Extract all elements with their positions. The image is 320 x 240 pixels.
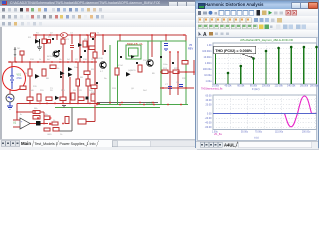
- svg-text:Power Supplies_1: Power Supplies_1: [60, 142, 89, 146]
- bottom plot hgrid: [213, 100, 317, 128]
- wire v6: [79, 35, 81, 62]
- svg-text:100.00u: 100.00u: [203, 68, 212, 71]
- svg-text:R41: R41: [61, 90, 66, 92]
- caption buttons: [291, 2, 301, 9]
- wire chain right: [86, 121, 95, 123]
- current source IS1: [14, 47, 16, 57]
- svg-text:2.5m: 2.5m: [17, 78, 22, 80]
- svg-text:R5: R5: [24, 73, 28, 75]
- red plus mark1: [49, 117, 51, 119]
- svg-text:200.00u: 200.00u: [302, 131, 311, 133]
- junction dots mid rail: [9, 61, 93, 63]
- svg-text:1k: 1k: [60, 134, 63, 136]
- svg-text:20.00: 20.00: [206, 104, 213, 107]
- svg-text:C2: C2: [75, 59, 79, 61]
- resistor box R29: [182, 61, 188, 65]
- green subcircuit mid box: [126, 45, 141, 59]
- resistor box R25: [173, 70, 179, 74]
- wire v20: [193, 60, 195, 75]
- ground G1: [37, 47, 42, 50]
- svg-text:180.00k: 180.00k: [310, 86, 318, 88]
- wire v13: [169, 52, 171, 95]
- sine trace magenta: [285, 96, 317, 127]
- top plot y labels: [202, 44, 212, 83]
- capacitor C1: [70, 46, 74, 48]
- transistor Q5 mark: [78, 43, 82, 47]
- wire opamp in+: [13, 119, 20, 121]
- svg-text:-20.00: -20.00: [205, 117, 212, 120]
- toolbar rows: [0, 6, 197, 14]
- svg-text:220: 220: [33, 86, 37, 88]
- svg-text:70.00u: 70.00u: [255, 131, 263, 133]
- resistor box R31: [65, 117, 69, 124]
- bottom plot y labels: [205, 94, 212, 129]
- top plot vgrid: [228, 43, 304, 84]
- svg-text:C7: C7: [165, 84, 169, 86]
- svg-text:R40: R40: [30, 90, 35, 92]
- harmonic stems: [216, 47, 317, 84]
- svg-text:50.00u: 50.00u: [241, 131, 249, 133]
- diode D8: [126, 72, 131, 77]
- junction dots right zone: [162, 51, 195, 89]
- wire v16: [21, 55, 23, 62]
- svg-text:C8: C8: [176, 82, 180, 84]
- THD arrowhead: [251, 56, 254, 58]
- wire v diode drop: [35, 35, 37, 39]
- svg-text:4k7: 4k7: [47, 59, 51, 61]
- resistor box R5: [83, 41, 87, 47]
- junction dots top rail: [35, 34, 185, 36]
- svg-text:Re: Re: [104, 78, 108, 80]
- svg-text:D9: D9: [50, 90, 54, 92]
- green subcircuit outer box: [118, 41, 187, 105]
- left window title bar: [0, 0, 197, 6]
- svg-text:BRR-KB_7A: BRR-KB_7A: [127, 42, 143, 46]
- wire v5a: [71, 35, 73, 44]
- resistor box R19: [71, 93, 75, 100]
- transistor Q1: [100, 62, 106, 68]
- svg-text:Info: Info: [90, 142, 96, 146]
- resistor box R2: [42, 39, 47, 44]
- svg-text:140.00k: 140.00k: [287, 86, 296, 88]
- app icon: [2, 1, 7, 5]
- svg-text:Rfb: Rfb: [34, 108, 38, 110]
- resistor box R16: [37, 94, 41, 101]
- source VG1: [10, 68, 14, 89]
- wire v19 long: [77, 62, 79, 104]
- svg-text:100.00m: 100.00m: [202, 50, 211, 53]
- resistor box R20: [78, 97, 84, 101]
- svg-text:4k7: 4k7: [48, 37, 52, 39]
- component box X3: [78, 119, 86, 124]
- black symbol specks: [52, 38, 174, 84]
- resistor box R8: [28, 69, 32, 76]
- svg-text:T1: T1: [97, 33, 100, 35]
- wire v14: [177, 52, 179, 95]
- resistor box R18: [60, 97, 66, 101]
- diode D5: [68, 73, 72, 77]
- wire IS1 stub: [14, 57, 16, 62]
- capacitor C4: [179, 85, 183, 87]
- wire right cross2: [160, 87, 194, 89]
- svg-text:R18: R18: [83, 59, 88, 61]
- wire v11: [151, 35, 153, 57]
- junction dots bottom bus dark: [109, 102, 154, 104]
- THD callout arrow: [241, 54, 253, 58]
- wire VS1 top: [9, 89, 11, 94]
- svg-text:R8: R8: [80, 77, 84, 79]
- svg-text:0.7: 0.7: [100, 71, 104, 73]
- svg-text:60.00k: 60.00k: [237, 86, 245, 88]
- wire opamp in-: [13, 126, 20, 128]
- resistor box R9: [42, 69, 46, 76]
- svg-text:THD(harmonics)_fla: THD(harmonics)_fla: [201, 88, 223, 91]
- bottom plot vgrid: [230, 95, 315, 130]
- wire v3: [56, 35, 58, 40]
- left toolbar row1 icons: [2, 8, 102, 12]
- top plot x labels: [212, 86, 319, 88]
- ground G4 blue: [164, 49, 168, 50]
- junction dots green bus: [96, 104, 182, 106]
- svg-text:D5: D5: [73, 90, 77, 92]
- schematic canvas: [0, 27, 199, 139]
- title path text: [10, 0, 160, 6]
- generator VS1 circle: [6, 94, 14, 102]
- wire bottom bus dark: [97, 102, 158, 104]
- caption buttons: [168, 1, 178, 7]
- svg-text:Test_Models 1: Test_Models 1: [35, 142, 58, 146]
- svg-text:1k: 1k: [39, 59, 42, 61]
- svg-text:-40.00: -40.00: [205, 122, 212, 125]
- svg-text:T3: T3: [50, 88, 53, 90]
- svg-text:C1: C1: [66, 39, 70, 41]
- svg-text:Q6: Q6: [131, 88, 135, 90]
- right toolbar row2 icons: [198, 18, 282, 23]
- wire right cross1: [160, 71, 194, 73]
- resistor box R24: [162, 70, 168, 74]
- svg-text:REV: REV: [188, 48, 193, 51]
- wire bottom bus red: [17, 103, 100, 105]
- generator VS1 sine: [8, 97, 12, 99]
- green subcircuit inner box: [129, 48, 139, 56]
- svg-text:BC546B: BC546B: [47, 56, 56, 58]
- svg-text:40.00: 40.00: [206, 99, 213, 102]
- junction dots opamp cluster: [16, 111, 64, 124]
- THD callout box: [214, 46, 256, 54]
- red plus mark2: [49, 123, 51, 125]
- svg-text:160.00k: 160.00k: [300, 86, 309, 88]
- fuse F1 ellipse on rail: [61, 33, 68, 38]
- wire to VG1: [11, 62, 13, 68]
- wire green inner v2: [147, 41, 149, 65]
- top plot frame: [213, 43, 317, 84]
- svg-text:IS1: IS1: [17, 48, 21, 50]
- diode D3: [60, 71, 65, 76]
- svg-text:fb: fb: [20, 114, 23, 116]
- wire opamp out: [30, 123, 48, 125]
- svg-text:10.00m: 10.00m: [204, 56, 212, 59]
- bottom plot x labels: [212, 131, 311, 133]
- svg-text:1.00m: 1.00m: [205, 62, 212, 65]
- resistor box R10: [50, 65, 56, 69]
- transistor Q3 mark: [131, 55, 135, 59]
- capacitor C6 black: [86, 97, 89, 100]
- transistor Q4: [53, 51, 59, 57]
- diode D1 bar: [39, 39, 41, 44]
- resistor box R23: [138, 65, 142, 72]
- top plot hgrid: [213, 48, 317, 78]
- wire v12: [165, 35, 167, 41]
- diode D4: [68, 67, 72, 71]
- resistor box R17: [46, 97, 52, 101]
- svg-text:R1: R1: [28, 37, 32, 39]
- wire green right drop: [160, 41, 162, 105]
- svg-text:A4UL: A4UL: [224, 143, 235, 148]
- meter box M1: [53, 127, 59, 130]
- svg-text:(H)BOD: (H)BOD: [128, 70, 136, 72]
- wire meas loop h: [57, 130, 72, 132]
- component box on rail X2: [91, 33, 96, 37]
- junction dots bottom bus: [29, 103, 98, 105]
- wire mid rail: [8, 61, 97, 63]
- svg-text:R6: R6: [46, 78, 50, 80]
- right toolbar row1 icons: [198, 10, 297, 16]
- resistor box Rfb1: [33, 110, 40, 113]
- svg-text:THD (FC02) = 0.008%: THD (FC02) = 0.008%: [215, 49, 253, 53]
- capacitor C3: [168, 87, 172, 89]
- svg-text:Main: Main: [21, 141, 31, 146]
- svg-text:60.00: 60.00: [206, 94, 213, 97]
- svg-text:R16: R16: [30, 59, 35, 61]
- right toolbar row4 icons: [199, 32, 230, 39]
- wire v18: [69, 77, 71, 104]
- svg-text:R9: R9: [91, 69, 95, 71]
- chart panel: [197, 37, 317, 141]
- diode D2: [35, 74, 40, 79]
- harmonic stem markers: [214, 46, 318, 75]
- op-amp U1: [20, 118, 30, 129]
- capacitor C2: [164, 44, 168, 46]
- resistor box R13: [86, 79, 90, 86]
- ground G3: [62, 106, 66, 108]
- wire v9: [102, 35, 104, 55]
- tiny component value labels: [17, 37, 180, 137]
- svg-text:vf1_fla: vf1_fla: [214, 132, 222, 136]
- left toolbar row3 icons: [2, 22, 42, 26]
- bottom plot frame: [213, 95, 317, 130]
- svg-text:1k: 1k: [57, 68, 60, 70]
- wire chain up: [94, 105, 96, 122]
- right title bar: [196, 1, 318, 9]
- wire feedback left: [16, 112, 18, 120]
- wire top rail: [33, 34, 186, 36]
- capacitor C5 black: [36, 121, 40, 125]
- svg-text:0.00: 0.00: [207, 112, 212, 115]
- schematic drawing: [0, 27, 197, 139]
- resistor box R27: [52, 122, 58, 125]
- resistor box R26: [44, 116, 50, 119]
- resistor box R6: [89, 46, 95, 50]
- wire D1 to ground: [39, 44, 41, 47]
- svg-text:100n: 100n: [163, 64, 168, 66]
- svg-text:2SC5200: 2SC5200: [143, 60, 153, 62]
- svg-text:t (s): t (s): [254, 135, 259, 139]
- resistor box R3: [48, 40, 51, 44]
- wire VS1 bottom: [9, 102, 11, 106]
- resistor box R15: [27, 97, 33, 101]
- svg-text:F (Hz): F (Hz): [252, 87, 260, 91]
- wire green inner v: [109, 45, 111, 105]
- annotation ellipse: [3, 67, 26, 91]
- svg-text:-60.00: -60.00: [205, 126, 212, 129]
- wire green bus lower: [55, 107, 160, 109]
- wire green bus upper: [97, 104, 188, 106]
- svg-text:BD: BD: [152, 73, 155, 75]
- svg-text:1.00: 1.00: [207, 44, 212, 47]
- wire v2: [43, 35, 45, 62]
- resistor box R11: [76, 79, 80, 86]
- wire bus to feedback: [16, 104, 18, 113]
- svg-text:D2: D2: [50, 33, 54, 35]
- resistor box R22: [115, 68, 119, 75]
- svg-text:2k: 2k: [91, 59, 94, 61]
- svg-text:BD139: BD139: [96, 58, 103, 60]
- right bottom tab bar: [196, 141, 318, 149]
- wire feedback top: [17, 111, 44, 113]
- bottom tab bar: [0, 139, 197, 148]
- resistor box R30: [20, 86, 26, 90]
- svg-text:220: 220: [40, 90, 44, 92]
- left toolbar row2 icons: [2, 15, 104, 19]
- svg-text:10.00u: 10.00u: [204, 74, 212, 77]
- svg-text:120.00k: 120.00k: [275, 86, 284, 88]
- wire v5b: [71, 50, 73, 62]
- svg-text:c05-dbahardtPS_daymon_d8d-ls-F: c05-dbahardtPS_daymon_d8d-ls-FOD-OR: [240, 38, 293, 42]
- svg-text:R33: R33: [112, 88, 117, 90]
- wire v10: [119, 35, 121, 41]
- ground G2: [7, 106, 13, 109]
- svg-text:Rb: Rb: [59, 59, 63, 61]
- resistor box R14: [91, 85, 97, 89]
- wire meas loop v: [71, 108, 73, 132]
- right toolbars: [196, 9, 318, 17]
- svg-text:1.00u: 1.00u: [206, 80, 213, 83]
- wire v17 long: [29, 62, 31, 104]
- svg-text:115.00u: 115.00u: [275, 131, 284, 133]
- wire v4 long: [62, 35, 64, 104]
- wire v15: [185, 35, 187, 72]
- resistor box R21: [91, 94, 95, 101]
- resistor box R12: [84, 71, 90, 75]
- svg-text:D4: D4: [67, 59, 71, 61]
- svg-text:IC04: IC04: [118, 65, 123, 67]
- resistor box Rfb2: [33, 116, 40, 119]
- wire v8 long: [94, 35, 96, 104]
- transistor Q2: [147, 60, 153, 66]
- svg-text:100.00k: 100.00k: [262, 86, 271, 88]
- component box X1: [20, 51, 24, 55]
- diode D1: [35, 39, 40, 44]
- svg-text:GND: GND: [47, 134, 52, 136]
- resistor box R28: [44, 128, 50, 131]
- wire feedback right: [43, 112, 45, 124]
- svg-text:C8: C8: [79, 90, 83, 92]
- extra value labels layer: [20, 33, 187, 137]
- resistor box R4: [61, 39, 65, 44]
- svg-text:C3: C3: [70, 33, 74, 35]
- resistor box R7: [93, 52, 97, 58]
- wire v7 long: [87, 35, 89, 104]
- svg-text:-: -: [21, 125, 22, 129]
- svg-text:R1: R1: [36, 33, 40, 35]
- svg-text:Re2: Re2: [143, 90, 148, 92]
- svg-text:U1: U1: [13, 122, 17, 125]
- right toolbar row3 icons: [198, 25, 306, 29]
- zero line blue: [213, 112, 317, 114]
- svg-text:40.00k: 40.00k: [225, 86, 233, 88]
- svg-text:R24: R24: [163, 68, 168, 70]
- svg-text:VG1: VG1: [17, 75, 22, 77]
- diode D6: [55, 96, 59, 100]
